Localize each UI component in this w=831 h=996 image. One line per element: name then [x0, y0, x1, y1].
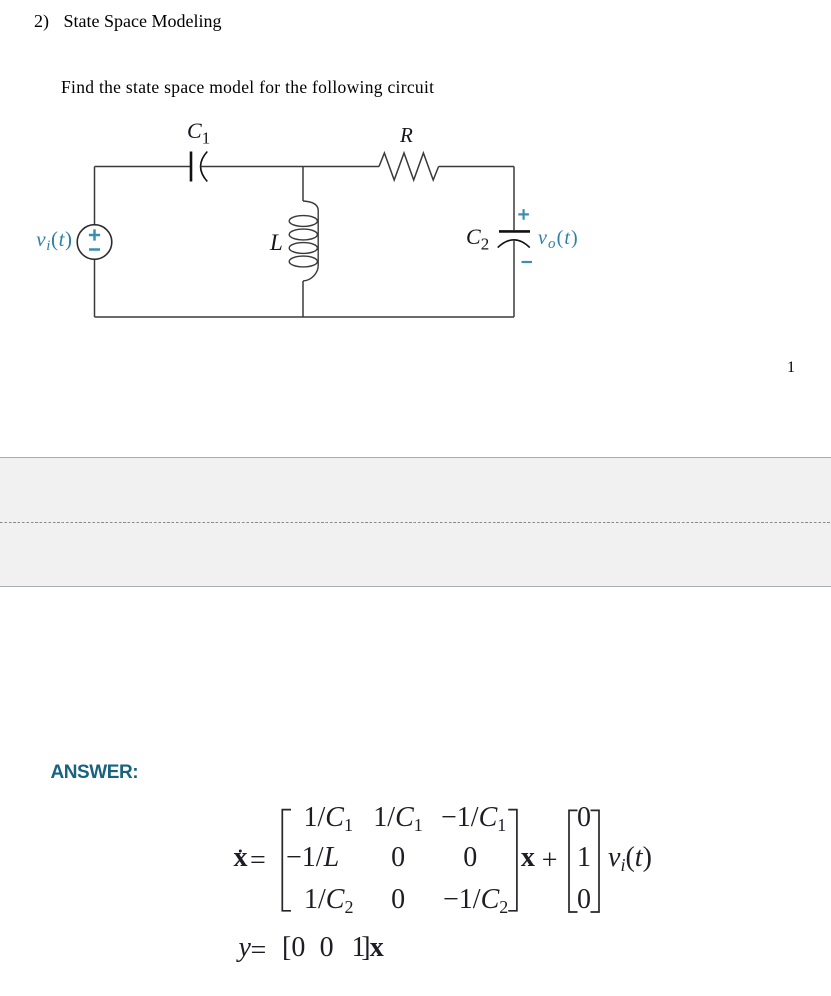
separator band [0, 457, 831, 587]
wire: left vertical above source [94, 167, 96, 225]
prompt line [61, 79, 434, 97]
inductor L loop 1 [289, 216, 317, 227]
wire: resistor to top-right corner [439, 166, 514, 168]
inductor L lead-out curve [303, 266, 318, 282]
label vo(t) [538, 228, 579, 248]
wire: middle branch lower [302, 281, 304, 317]
dashed page break line [0, 522, 831, 523]
matrix row2 col3 [463, 844, 477, 872]
inductor L loop 2 [289, 229, 317, 240]
wire: middle branch upper [302, 167, 304, 202]
label vi(t) [36, 229, 72, 250]
voltage source vi(t) circle [77, 225, 112, 260]
label C1 [187, 120, 210, 142]
matrix row3 col3 [443, 886, 508, 914]
capacitor C2 top plate [499, 230, 530, 233]
vector left bracket [569, 810, 578, 912]
label R [400, 125, 413, 146]
wire: right vertical lower [513, 240, 515, 317]
wire: left vertical below source [94, 259, 96, 317]
voltage source plus mark [89, 229, 100, 240]
vector right bracket [591, 810, 600, 912]
heading: 2) State Space Modeling [34, 12, 221, 30]
page number 1 [787, 360, 795, 376]
label L [270, 231, 283, 254]
vo(t) polarity plus mark [518, 209, 529, 220]
capacitor C2 bottom curved plate [498, 240, 530, 248]
matrix row3 col1 [304, 886, 353, 914]
capacitor C1 right curved plate [201, 152, 208, 182]
label C2 [466, 226, 489, 248]
inductor L right side [317, 211, 319, 266]
equation 1: x-dot = [234, 844, 248, 872]
matrix left bracket [282, 810, 291, 911]
wire: right vertical upper [513, 167, 515, 231]
inductor L lead-in curve [303, 201, 318, 211]
equation 2: y = [0 0 1]x [239, 934, 251, 962]
voltage source minus mark [89, 248, 100, 251]
matrix row2 col1 [286, 844, 339, 872]
x + [521, 844, 535, 872]
wire: C1 to resistor, with node at middle branch [201, 166, 379, 168]
dot above x-dot [239, 850, 242, 853]
inductor L loop 3 [289, 243, 317, 254]
matrix row2 col2 [391, 844, 405, 872]
ANSWER: heading [51, 763, 139, 782]
matrix right bracket [508, 810, 517, 911]
resistor R zigzag [379, 153, 439, 180]
vo(t) polarity minus mark [522, 261, 533, 263]
wire: top-left from source to C1 left plate [95, 166, 191, 168]
matrix row1 col2 [373, 804, 422, 832]
capacitor C1 left plate [190, 152, 193, 182]
matrix row1 col3 [441, 804, 506, 832]
vector entries [570, 804, 598, 832]
inductor L loop 4 [289, 256, 317, 267]
matrix row1 col1 [304, 804, 353, 832]
wire: bottom return [95, 316, 515, 318]
vi(t) after vector [608, 844, 652, 872]
matrix row3 col2 [391, 886, 405, 914]
